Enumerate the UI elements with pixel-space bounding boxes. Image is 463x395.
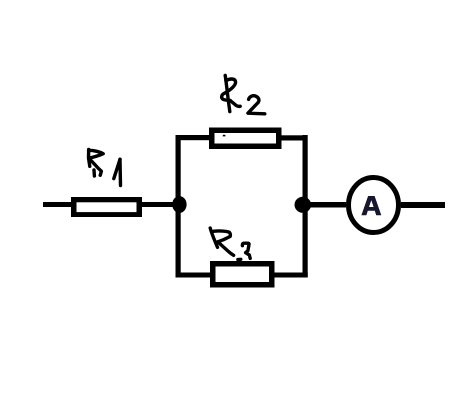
wire R1 to node A [140, 202, 180, 207]
label R2 [222, 75, 265, 113]
resistor R2 [209, 128, 282, 150]
node (junction dot) left [172, 196, 186, 213]
ammeter U1 [349, 178, 399, 233]
wire bottom-right segment [274, 273, 308, 278]
wire right lead [401, 202, 445, 208]
label R3 [210, 228, 250, 260]
wire left lead [43, 202, 72, 207]
wire parallel-right vertical [303, 135, 308, 277]
node (junction dot) right [295, 197, 312, 213]
resistor R1 [71, 197, 142, 217]
wire parallel-left vertical [176, 135, 181, 277]
wire top-left segment [176, 135, 210, 140]
wire top-right segment [281, 135, 308, 140]
label R1 [89, 150, 121, 186]
resistor R3 [210, 261, 275, 288]
wire bottom-left segment [176, 273, 211, 278]
wire node to ammeter [307, 202, 346, 208]
